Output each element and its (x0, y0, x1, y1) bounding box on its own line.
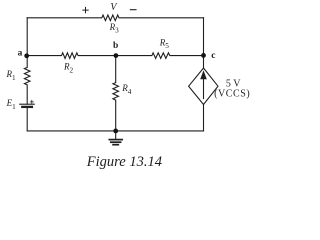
svg-text:Figure 13.14: Figure 13.14 (86, 154, 162, 170)
svg-text:a: a (18, 49, 23, 59)
svg-text:R3: R3 (109, 22, 120, 35)
svg-text:E1: E1 (6, 98, 17, 111)
svg-text:R4: R4 (121, 83, 132, 96)
svg-text:R2: R2 (63, 62, 74, 75)
svg-text:V: V (110, 2, 118, 13)
svg-text:R5: R5 (159, 37, 170, 50)
svg-text:b: b (113, 41, 118, 51)
svg-text:R1: R1 (6, 69, 17, 82)
svg-text:(VCCS): (VCCS) (214, 88, 250, 99)
svg-text:c: c (211, 51, 215, 61)
